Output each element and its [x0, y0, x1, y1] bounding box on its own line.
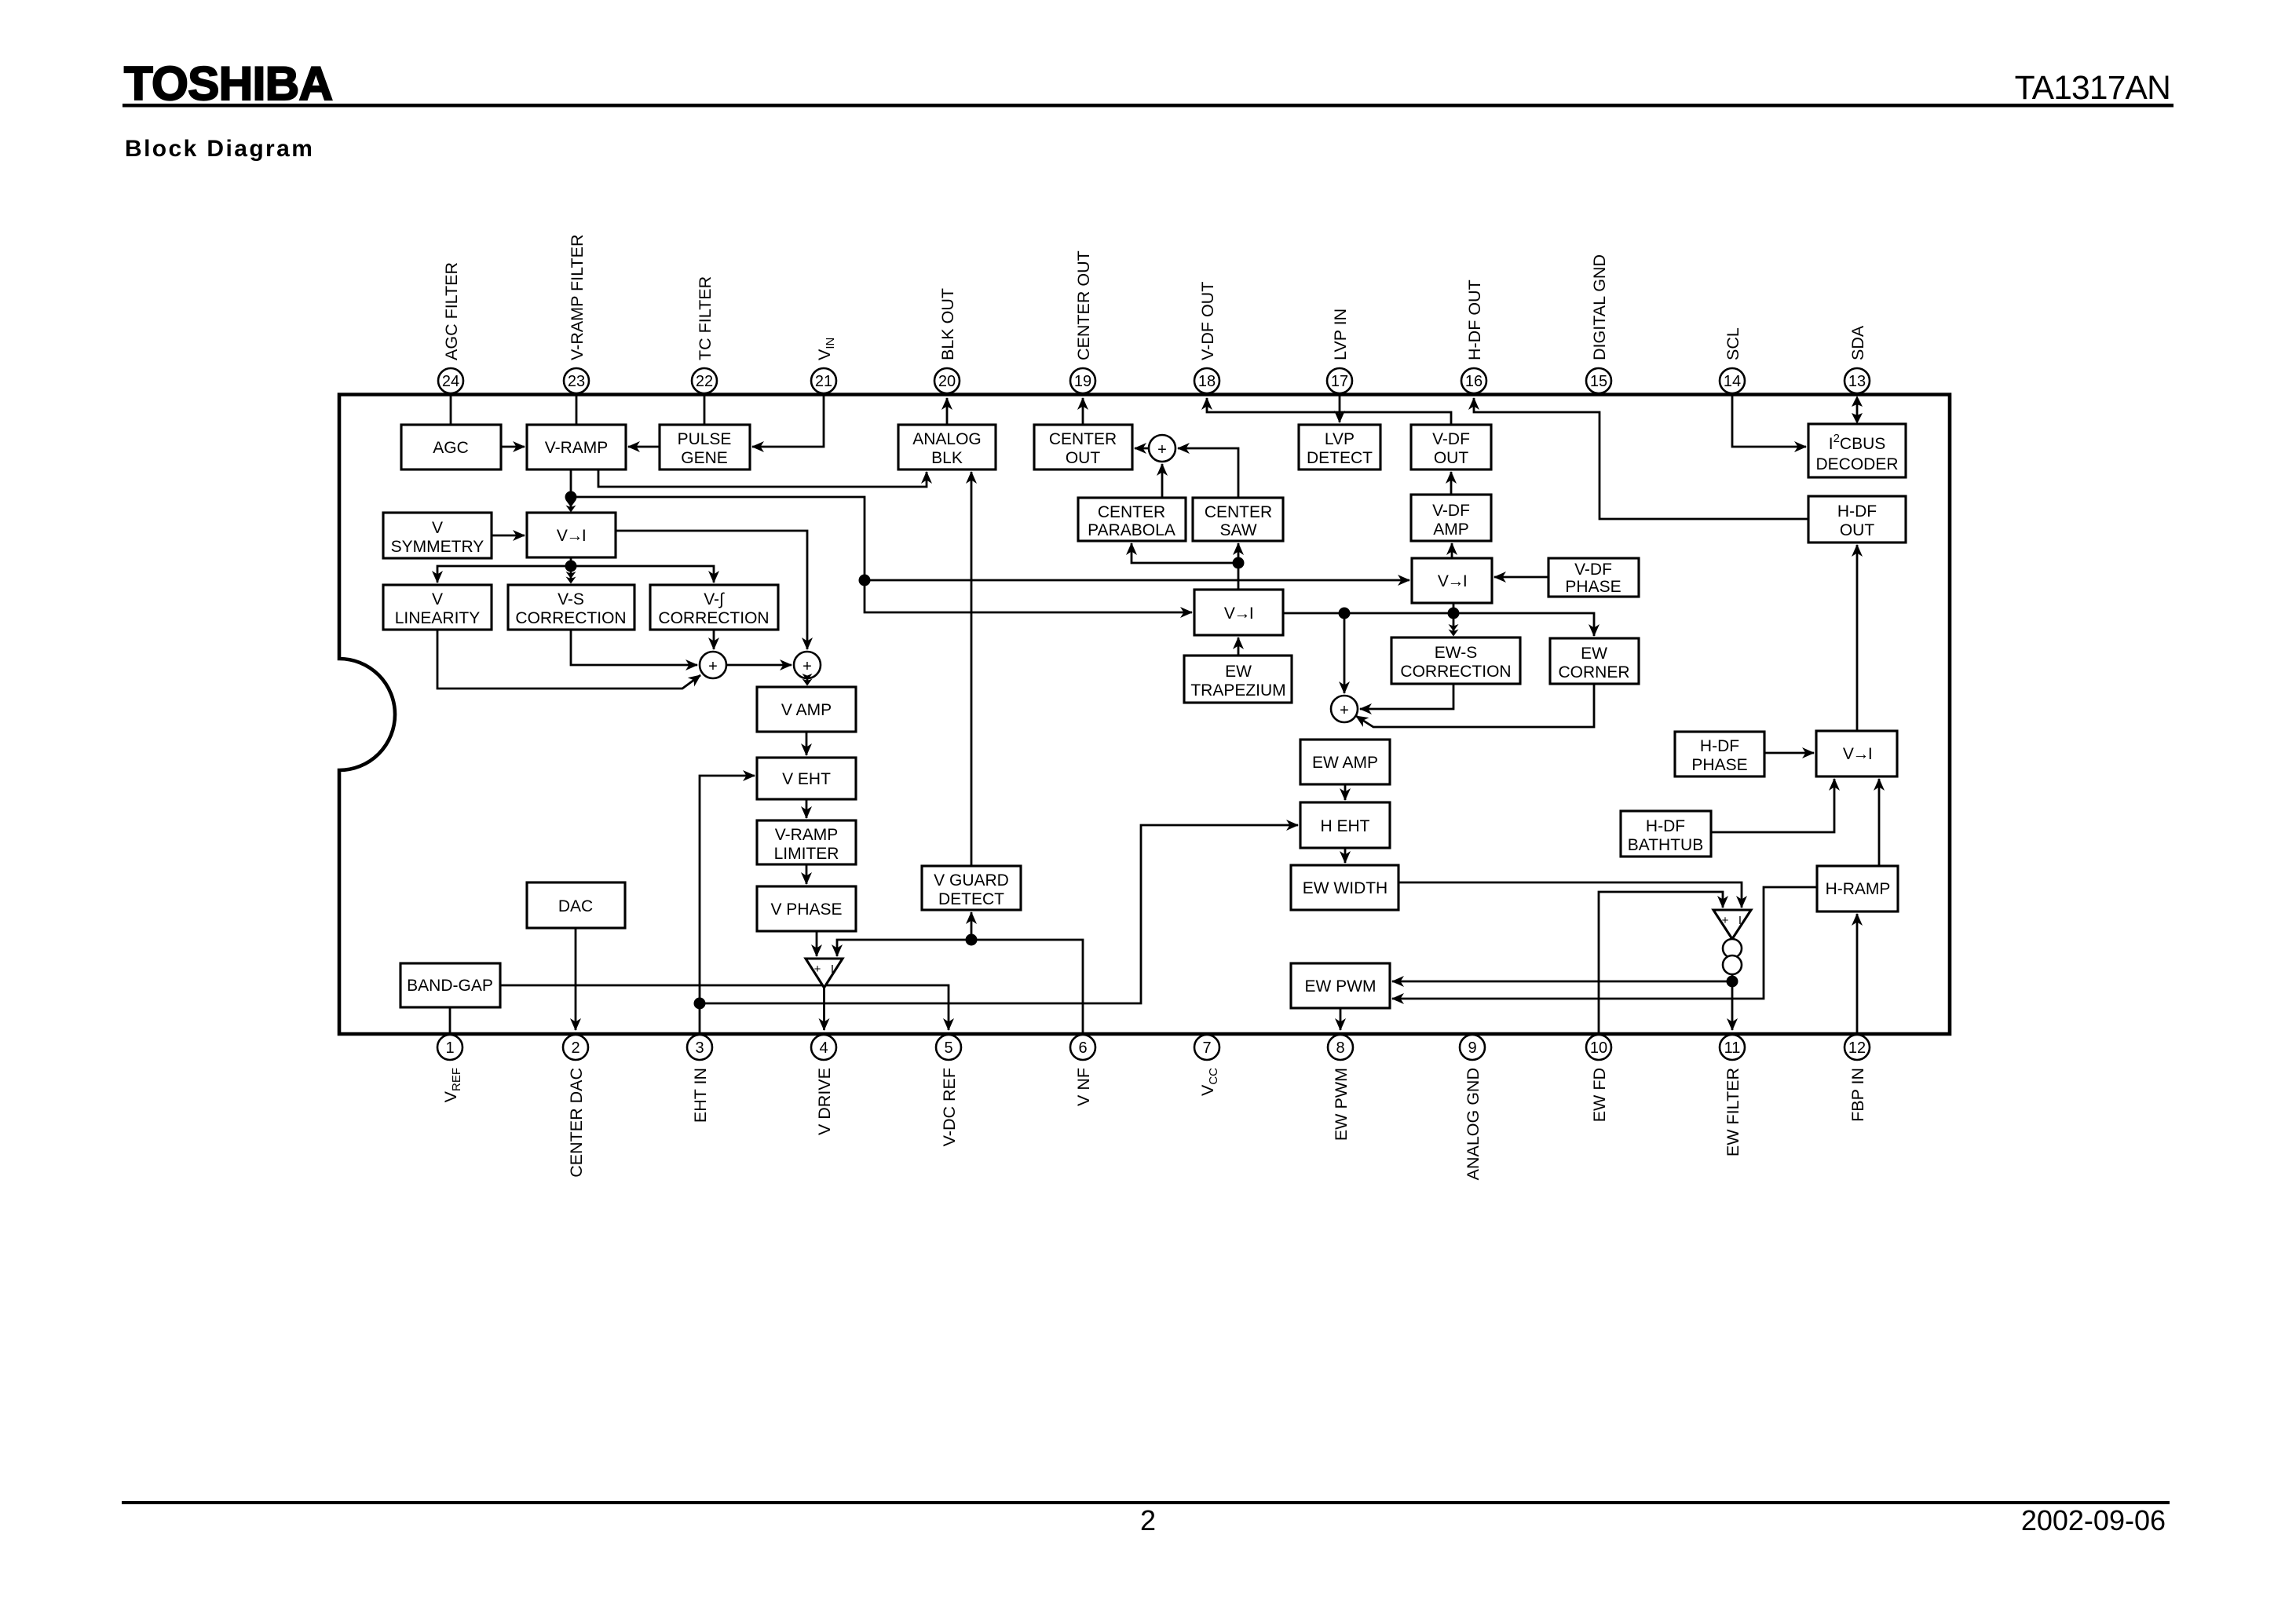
svg-text:ANALOG GND: ANALOG GND [1464, 1068, 1483, 1180]
pin 1 [437, 1035, 462, 1060]
svg-text:V-RAMP: V-RAMP [775, 826, 839, 844]
wire H-DF PHASE to H-DF V-to-I [1764, 752, 1814, 754]
svg-text:V→I: V→I [557, 527, 585, 545]
block V EHT [757, 758, 856, 799]
pin 4 [811, 1035, 836, 1060]
pin 16 [1461, 368, 1486, 393]
svg-text:11: 11 [1724, 1039, 1741, 1057]
summing node S4 [1331, 696, 1358, 722]
pin 24 [438, 368, 463, 393]
junction EW-S feed node [1448, 608, 1460, 619]
wire H-DF BATHTUB to H-DF V-to-I [1711, 779, 1834, 832]
svg-text:V→I: V→I [1224, 605, 1252, 623]
pin 7 [1194, 1035, 1219, 1060]
svg-text:FBP IN: FBP IN [1848, 1068, 1867, 1122]
wire V-DF V-to-I stub to node [1453, 603, 1455, 613]
svg-text:V-DF: V-DF [1432, 430, 1470, 448]
wire H-DF OUT to pin16 [1474, 398, 1808, 519]
svg-text:V-S: V-S [558, 590, 584, 608]
svg-text:AMP: AMP [1433, 521, 1469, 539]
pin 15 [1586, 368, 1611, 393]
wire EW CORNER to sum4 diagonal [1356, 684, 1594, 727]
svg-text:DETECT: DETECT [938, 890, 1004, 908]
wire V SYMMETRY to V-to-I [492, 535, 525, 537]
svg-text:+: + [1157, 441, 1167, 458]
svg-text:CORNER: CORNER [1558, 663, 1629, 681]
svg-text:H-DF: H-DF [1837, 502, 1877, 521]
svg-text:V-∫: V-∫ [704, 590, 725, 608]
svg-text:ANALOG: ANALOG [912, 430, 982, 448]
svg-text:EW: EW [1581, 645, 1607, 663]
svg-text:TRAPEZIUM: TRAPEZIUM [1190, 681, 1285, 700]
svg-text:5: 5 [944, 1039, 952, 1057]
block H-DF PHASE [1675, 732, 1764, 776]
block ANALOG BLK [898, 425, 996, 469]
wire DAC to pin2 [575, 928, 577, 1030]
block EW-S CORRECTION [1391, 637, 1520, 684]
svg-text:13: 13 [1848, 373, 1866, 390]
svg-text:V DRIVE: V DRIVE [815, 1068, 834, 1135]
block V-DF PHASE [1548, 558, 1639, 597]
svg-text:24: 24 [442, 373, 459, 390]
svg-text:SCL: SCL [1724, 327, 1742, 360]
svg-text:+: + [1722, 914, 1729, 927]
svg-text:2: 2 [1140, 1504, 1156, 1536]
block EW WIDTH [1291, 865, 1398, 910]
wire node to pin11 EW FILTER [1731, 981, 1734, 1030]
svg-text:OUT: OUT [1434, 449, 1469, 467]
summing node S2 [794, 652, 821, 678]
svg-text:V-DF: V-DF [1432, 502, 1470, 520]
block V-DF AMP [1411, 495, 1491, 541]
wire V NF node to V GUARD DETECT [971, 912, 973, 940]
svg-text:CENTER OUT: CENTER OUT [1074, 250, 1093, 360]
svg-text:OUT: OUT [1066, 449, 1101, 467]
svg-text:V AMP: V AMP [781, 701, 832, 719]
pin 14 [1720, 368, 1745, 393]
header rule [122, 104, 2174, 108]
wire H-RAMP to EW PWM lower [1392, 887, 1817, 999]
block V-RAMP [527, 425, 626, 469]
block H-DF BATHTUB [1621, 811, 1711, 857]
wire PULSE GENE to V-RAMP [628, 446, 660, 448]
svg-text:V GUARD: V GUARD [934, 871, 1009, 890]
wire center V-to-I output to EW CORNER [1283, 613, 1594, 636]
block H-RAMP [1817, 866, 1898, 911]
svg-text:DECODER: DECODER [1815, 455, 1898, 473]
svg-text:BAND-GAP: BAND-GAP [407, 977, 493, 995]
svg-text:V→I: V→I [1438, 572, 1466, 590]
wire node to V-integral CORRECTION [571, 566, 714, 583]
wire V PHASE to comparator T1 [816, 931, 818, 956]
wire V-S CORRECTION to sum1 [571, 630, 697, 665]
svg-text:EHT IN: EHT IN [691, 1068, 710, 1123]
wire V-DF PHASE to V-DF V-to-I [1494, 576, 1548, 579]
svg-text:15: 15 [1590, 373, 1607, 390]
wire pin6 V NF to comparator T1 [837, 940, 1083, 1032]
block V LINEARITY [383, 585, 492, 630]
svg-text:TOSHIBA: TOSHIBA [124, 57, 332, 110]
wire EW AMP to H EHT [1344, 784, 1347, 800]
svg-text:PARABOLA: PARABOLA [1088, 521, 1175, 539]
summing node S1 [700, 652, 726, 678]
svg-text:7: 7 [1202, 1039, 1211, 1057]
svg-text:EW AMP: EW AMP [1312, 754, 1378, 772]
svg-text:H-RAMP: H-RAMP [1826, 880, 1891, 898]
pin 2 [563, 1035, 588, 1060]
wire feedback node to center V-to-I [865, 580, 1192, 612]
block H-DF V-to-I [1816, 731, 1897, 776]
svg-text:16: 16 [1465, 373, 1483, 390]
svg-text:17: 17 [1331, 373, 1348, 390]
junction S4 feed node [1339, 608, 1351, 619]
wire pin21 VIN to PULSE GENE [752, 396, 824, 447]
svg-text:CORRECTION: CORRECTION [515, 609, 626, 627]
block V GUARD DETECT [922, 866, 1021, 910]
svg-text:SAW: SAW [1219, 521, 1256, 539]
wire H-RAMP to H-DF V-to-I [1878, 779, 1881, 866]
block EW PWM [1291, 963, 1390, 1008]
pin 13 [1844, 368, 1870, 393]
block EW TRAPEZIUM [1184, 656, 1292, 703]
svg-text:PHASE: PHASE [1691, 756, 1747, 774]
wire pin3 EHT IN riser to V EHT [700, 776, 755, 1032]
wire pin22 to PULSE GENE [704, 396, 706, 425]
svg-text:CENTER: CENTER [1098, 503, 1165, 521]
svg-text:TC FILTER: TC FILTER [696, 276, 715, 360]
pin 6 [1070, 1035, 1095, 1060]
wire node down to sum4 [1344, 613, 1346, 693]
svg-text:1: 1 [445, 1039, 454, 1057]
block CENTER SAW [1193, 498, 1283, 541]
pin 22 [692, 368, 717, 393]
block V-DF V-to-I [1412, 558, 1492, 603]
wire V-RAMP LIMITER to V PHASE [806, 864, 808, 884]
block V-RAMP LIMITER [757, 820, 856, 864]
svg-text:6: 6 [1078, 1039, 1087, 1057]
svg-text:8: 8 [1336, 1039, 1344, 1057]
svg-text:EW: EW [1225, 663, 1252, 681]
wire pin10 EW FD to comparator T2 [1599, 892, 1723, 1032]
svg-text:3: 3 [695, 1039, 704, 1057]
svg-text:V-DF OUT: V-DF OUT [1198, 282, 1217, 360]
svg-text:EW PWM: EW PWM [1332, 1068, 1351, 1141]
svg-text:Block Diagram: Block Diagram [125, 136, 314, 162]
junction EW FILTER node [1727, 976, 1738, 988]
chip outline IC body [339, 395, 1950, 1035]
svg-text:4: 4 [819, 1039, 828, 1057]
block EW AMP [1300, 740, 1390, 784]
wire V-to-I down to V-S CORRECTION [570, 557, 572, 583]
junction V NF node [966, 934, 978, 946]
svg-text:21: 21 [815, 373, 832, 390]
wire pin23 to V-RAMP [576, 396, 578, 425]
wire AGC to V-RAMP [501, 446, 525, 448]
wire center V-to-I up to CENTER SAW [1238, 543, 1240, 590]
svg-text:AGC: AGC [433, 439, 469, 457]
wire V-integral CORRECTION to sum1 [713, 630, 715, 649]
svg-text:+: + [803, 658, 812, 675]
junction center saw node [1233, 557, 1245, 569]
svg-text:V NF: V NF [1074, 1068, 1093, 1106]
svg-text:H-DF: H-DF [1700, 737, 1739, 755]
wire CENTER SAW to sum3 [1178, 448, 1238, 498]
pin 18 [1194, 368, 1219, 393]
pin 17 [1327, 368, 1352, 393]
wire V-RAMP to ANALOG BLK [598, 469, 927, 487]
junction V-RAMP output node [565, 491, 577, 503]
wire pin24 to AGC [450, 396, 452, 425]
svg-text:V EHT: V EHT [782, 770, 831, 788]
block V-to-I vertical [527, 513, 616, 557]
svg-text:12: 12 [1848, 1039, 1866, 1057]
pin 3 [687, 1035, 712, 1060]
wire CENTER PARABOLA to sum3 [1161, 464, 1164, 498]
svg-text:9: 9 [1468, 1039, 1476, 1057]
svg-text:CENTER: CENTER [1049, 430, 1117, 448]
wire V-DF OUT to pin18 [1207, 398, 1451, 425]
svg-text:V-RAMP FILTER: V-RAMP FILTER [568, 235, 587, 360]
wire EW TRAPEZIUM to center V-to-I [1238, 637, 1240, 656]
wire BAND-GAP to pin1 [449, 1007, 452, 1032]
wire node to EW PWM upper [1392, 981, 1732, 983]
svg-text:H-DF OUT: H-DF OUT [1465, 279, 1484, 360]
svg-text:LIMITER: LIMITER [774, 845, 839, 863]
svg-text:GENE: GENE [681, 449, 728, 467]
wire H EHT to EW WIDTH [1344, 848, 1347, 863]
wire V GUARD DETECT to ANALOG BLK [971, 472, 973, 866]
svg-text:EW-S: EW-S [1435, 644, 1477, 662]
block CENTER OUT [1034, 425, 1132, 469]
svg-text:LINEARITY: LINEARITY [395, 609, 481, 627]
svg-text:EW FILTER: EW FILTER [1724, 1068, 1742, 1156]
pin 12 [1844, 1035, 1870, 1060]
current mirror circles [1723, 939, 1742, 974]
svg-text:V-RAMP: V-RAMP [545, 439, 609, 457]
block DAC [527, 882, 625, 928]
svg-text:EW FD: EW FD [1590, 1068, 1609, 1122]
block V AMP [757, 687, 856, 732]
svg-text:OUT: OUT [1840, 521, 1875, 539]
svg-text:22: 22 [696, 373, 713, 390]
svg-text:+: + [814, 963, 821, 976]
block H-DF OUT [1808, 496, 1906, 542]
summing node S3 [1149, 435, 1175, 462]
svg-text:EW PWM: EW PWM [1305, 977, 1377, 995]
svg-text:H EHT: H EHT [1321, 817, 1370, 835]
svg-text:CENTER: CENTER [1205, 503, 1272, 521]
pin 8 [1328, 1035, 1353, 1060]
wire T1 output to pin4 V DRIVE [823, 988, 825, 1030]
wire V-RAMP down to V-to-I [570, 469, 572, 511]
comparator T2 [1713, 910, 1751, 939]
pin 23 [564, 368, 589, 393]
svg-text:V: V [432, 590, 443, 608]
block EW CORNER [1550, 638, 1639, 684]
block PULSE GENE [660, 425, 750, 469]
block BAND-GAP [400, 963, 500, 1007]
svg-text:V PHASE: V PHASE [770, 901, 842, 919]
wire V AMP to V EHT [806, 732, 808, 755]
block H EHT [1300, 802, 1390, 848]
block V-DF OUT [1411, 425, 1491, 469]
svg-text:+: + [708, 658, 718, 675]
svg-text:14: 14 [1724, 373, 1741, 390]
footer rule [122, 1501, 2170, 1504]
wire sum2 to V AMP [806, 678, 809, 685]
wire V-DF AMP to V-DF OUT [1450, 472, 1453, 495]
pin 19 [1070, 368, 1095, 393]
svg-text:LVP IN: LVP IN [1331, 309, 1350, 360]
svg-text:V: V [432, 519, 443, 537]
wire mirror to node [1731, 974, 1734, 981]
wire V-to-I output to sum2 [616, 531, 807, 649]
wire V LINEARITY to sum1 diagonal [437, 630, 700, 689]
block V-integral CORRECTION [650, 585, 778, 630]
svg-text:CENTER DAC: CENTER DAC [567, 1068, 586, 1178]
pin 21 [811, 368, 836, 393]
wire V EHT to V-RAMP LIMITER [806, 799, 808, 818]
block LVP DETECT [1299, 425, 1380, 469]
svg-text:DETECT: DETECT [1307, 449, 1373, 467]
svg-text:PHASE: PHASE [1565, 578, 1621, 596]
svg-text:CORRECTION: CORRECTION [1400, 663, 1511, 681]
svg-text:2002-09-06: 2002-09-06 [2021, 1504, 2166, 1536]
junction V-to-I output node [565, 561, 577, 572]
wire EW WIDTH to comparator T2 [1398, 882, 1742, 908]
block CENTER PARABOLA [1078, 498, 1186, 541]
wire sum3 to CENTER OUT [1135, 448, 1149, 450]
wire feedback from V-RAMP node to corner [571, 497, 865, 580]
svg-text:I: I [831, 963, 834, 976]
block center V-to-I [1194, 590, 1283, 635]
svg-text:AGC FILTER: AGC FILTER [442, 262, 461, 360]
wire pin17 LVP IN to LVP DETECT [1339, 396, 1341, 422]
wire pin12 FBP IN to H-RAMP [1856, 914, 1859, 1032]
pin 9 [1460, 1035, 1485, 1060]
svg-text:BLK OUT: BLK OUT [938, 288, 957, 360]
svg-text:18: 18 [1198, 373, 1216, 390]
wire pin14 SCL to I2CBUS DECODER [1732, 396, 1806, 447]
junction feedback node [859, 575, 871, 586]
svg-text:LVP: LVP [1325, 430, 1355, 448]
svg-text:V→I: V→I [1843, 745, 1871, 763]
comparator T1 [806, 959, 843, 988]
svg-text:19: 19 [1074, 373, 1091, 390]
svg-text:I: I [1738, 914, 1742, 927]
svg-text:PULSE: PULSE [678, 430, 732, 448]
svg-text:23: 23 [568, 373, 585, 390]
wire V-DF V-to-I to V-DF AMP [1451, 543, 1453, 558]
wire EW-S CORRECTION to sum4 [1360, 684, 1453, 709]
wire feedback node to V-DF V-to-I [865, 579, 1409, 582]
wire pin13 SDA bidirectional [1856, 402, 1859, 418]
pin 10 [1586, 1035, 1611, 1060]
wire EW PWM to pin8 [1340, 1008, 1342, 1030]
block V PHASE [757, 886, 856, 931]
block I2CBUS DECODER [1808, 424, 1906, 477]
svg-text:V-DF: V-DF [1574, 561, 1612, 579]
wire EHT IN node to H EHT [700, 825, 1298, 1003]
svg-text:BATHTUB: BATHTUB [1628, 836, 1703, 854]
block AGC [401, 425, 501, 469]
svg-text:EW WIDTH: EW WIDTH [1303, 879, 1387, 897]
svg-text:DIGITAL GND: DIGITAL GND [1590, 254, 1609, 360]
svg-text:TA1317AN: TA1317AN [2015, 70, 2170, 107]
svg-text:BLK: BLK [931, 449, 963, 467]
svg-text:2: 2 [571, 1039, 579, 1057]
svg-text:SYMMETRY: SYMMETRY [391, 538, 484, 556]
wire H-DF V-to-I to H-DF OUT [1856, 545, 1859, 731]
pin 20 [934, 368, 960, 393]
wire BAND-GAP to pin5 V-DC REF [500, 985, 949, 1030]
wire node to V LINEARITY [437, 566, 571, 583]
wire CENTER OUT to pin19 [1082, 398, 1084, 425]
block V-S CORRECTION [508, 585, 634, 630]
pin 11 [1720, 1035, 1745, 1060]
junction EHT IN node [694, 998, 706, 1010]
svg-text:DAC: DAC [558, 897, 593, 915]
block V SYMMETRY [383, 513, 492, 558]
svg-text:H-DF: H-DF [1646, 817, 1685, 835]
svg-text:20: 20 [938, 373, 956, 390]
wire node to EW-S CORRECTION [1453, 613, 1455, 635]
wire ANALOG BLK to pin20 [946, 398, 949, 425]
svg-text:+: + [1340, 702, 1349, 719]
wire sum1 to sum2 [726, 664, 792, 667]
wire node to CENTER PARABOLA [1132, 543, 1238, 563]
svg-text:V-DC REF: V-DC REF [940, 1068, 959, 1146]
svg-text:SDA: SDA [1848, 325, 1867, 360]
svg-text:CORRECTION: CORRECTION [658, 609, 769, 627]
svg-text:10: 10 [1590, 1039, 1607, 1057]
pin 5 [936, 1035, 961, 1060]
